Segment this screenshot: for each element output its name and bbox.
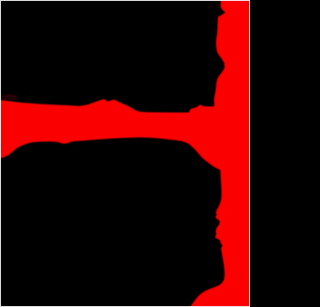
faint dark-red smudge above band left: [0, 94, 18, 100]
black background: [0, 0, 250, 307]
photo canvas: [0, 0, 250, 307]
red shape (band + right bar): [0, 0, 250, 307]
white frame border: [1, 1, 250, 307]
